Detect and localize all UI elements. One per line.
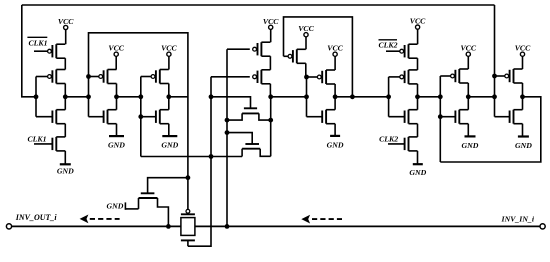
node stage5 output — [333, 94, 338, 99]
wire stage1 output — [64, 84, 66, 110]
vcc VCC keeper — [304, 33, 308, 37]
transistor M11 NMOS stage5 — [321, 111, 323, 123]
wire CLK2bar gate lead — [386, 50, 400, 52]
terminal INV_IN_i — [540, 224, 545, 229]
svg-text:GND: GND — [409, 168, 426, 177]
wire cmos2 input bar — [388, 77, 390, 117]
node INV_OUT junction — [166, 224, 171, 229]
wire M12-M13 connector — [417, 58, 419, 70]
node stage9 output — [520, 94, 525, 99]
wire VCC9 stub — [522, 56, 524, 69]
wire M8 source to gnd — [168, 124, 170, 136]
svg-text:VCC: VCC — [298, 24, 314, 33]
wire keeper drain — [305, 63, 307, 77]
vcc VCC mid — [269, 25, 273, 29]
node stage1 input — [34, 94, 39, 99]
node stage3 input — [138, 94, 143, 99]
wire stage2 input bar lower — [88, 97, 90, 117]
ground GND stage9 — [518, 135, 529, 137]
ground GND stage1 — [60, 163, 71, 165]
node stage2 input — [86, 94, 91, 99]
vcc VCC stage9 — [520, 52, 524, 56]
wire stage5 nmos gate lead — [307, 116, 323, 118]
wire stage9 nmos gate lead — [495, 116, 510, 118]
transistor M13 PMOS (input) — [404, 71, 406, 83]
wire U2 drain to node R — [269, 84, 271, 97]
svg-text:VCC: VCC — [161, 44, 177, 53]
transistor M15 NMOS (CLK2) — [404, 138, 406, 150]
wire left rail — [22, 5, 36, 97]
node stage9 input — [492, 94, 497, 99]
vcc VCC stage8 — [466, 52, 470, 56]
transistor M6 NMOS stage2 — [103, 111, 105, 123]
transistor M8 NMOS stage3 — [155, 111, 157, 123]
wire VCC1 stub — [65, 30, 67, 45]
wire stage8 pmos gate lead — [440, 75, 450, 77]
wire cmos2 nmos gate lead — [389, 116, 405, 118]
node n1 bus — [209, 94, 214, 99]
node stage8 input — [438, 94, 443, 99]
vcc VCC stage1 — [64, 25, 68, 29]
transmission gate TG1 — [186, 209, 190, 213]
node stage9 pmos gate — [492, 74, 497, 79]
wire CLK2 gate lead — [388, 143, 405, 145]
wire stage3 nmos gate lead — [141, 116, 156, 118]
transistor M17 NMOS stage8 — [454, 111, 456, 123]
svg-text:GND: GND — [57, 166, 74, 175]
terminal INV_OUT_i — [6, 224, 11, 229]
wire stage2 nmos gate lead — [89, 116, 104, 118]
svg-text:VCC: VCC — [263, 17, 279, 26]
wire M4 source to gnd — [64, 151, 66, 164]
transistor B NMOS horizontal — [245, 143, 259, 145]
svg-text:INV_OUT_i: INV_OUT_i — [15, 213, 58, 222]
wire VCC6 stub — [417, 29, 419, 44]
ground GND cmos2 — [413, 163, 423, 165]
svg-text:CLK2: CLK2 — [379, 134, 398, 143]
wire stage5 output — [334, 84, 336, 110]
wire bus stage5.out to cmos2.in — [335, 96, 389, 98]
svg-text:GND: GND — [107, 201, 124, 210]
node n1 lower — [209, 154, 214, 159]
transistor M16 PMOS stage8 — [454, 70, 456, 82]
svg-text:GND: GND — [462, 141, 479, 150]
wire stage1 nmos gate lead — [36, 116, 52, 118]
wire stage2 pmos gate lead — [89, 76, 99, 78]
wire stage8 input bar — [439, 76, 441, 162]
wire VCC8 stub — [467, 56, 469, 69]
wire stage1 input bar — [35, 77, 37, 117]
svg-text:VCC: VCC — [58, 17, 74, 26]
wire M6 source to gnd — [116, 124, 118, 136]
wire bus cmos2.out to stage8.in — [418, 96, 441, 98]
svg-text:VCC: VCC — [327, 44, 343, 53]
ground GND stage5 — [330, 135, 340, 137]
wire A gate feed — [211, 97, 251, 109]
node nQ bottom bus — [225, 224, 230, 229]
node stage1 output — [63, 94, 68, 99]
svg-text:GND: GND — [327, 140, 344, 149]
svg-text:CLK1: CLK1 — [28, 39, 47, 48]
wire latch1 feedback loop — [89, 33, 188, 210]
wire keeper pmos gate lead — [284, 55, 289, 57]
wire stage3 pmos gate lead — [141, 76, 151, 78]
wire stage9 input bar — [494, 5, 496, 117]
vcc VCC stage3 — [167, 52, 171, 56]
wire stage8 nmos gate lead — [440, 116, 455, 118]
wire keeper gate lead — [148, 178, 188, 194]
ground GND stage3 — [162, 135, 177, 137]
node nQ B-gate — [225, 130, 230, 135]
wire stage9 output — [522, 83, 524, 110]
wire bus R to stage5.in — [271, 96, 307, 98]
wire cmos2 pmos gate lead — [389, 76, 400, 78]
arrow dashed right — [301, 215, 310, 224]
wire M19 source to gnd — [522, 124, 524, 137]
wire bus stage2.out to stage3.in — [117, 96, 141, 98]
wire feedback top (node INV_FB) — [22, 4, 495, 6]
transistor M4 NMOS (CLK1) — [51, 138, 53, 150]
wire latch3 feedback loop — [440, 97, 541, 162]
node stage2 pmos gate — [86, 74, 91, 79]
svg-text:VCC: VCC — [410, 17, 426, 26]
transistor M20 NMOS keeper (gate horizontal) — [141, 192, 155, 194]
wire B gate feed — [227, 133, 252, 144]
transistor M3 NMOS (input) — [51, 111, 53, 123]
arrow dashed left — [80, 215, 89, 224]
wire stage2 output — [116, 84, 118, 110]
wire node-n1 rail — [188, 77, 211, 246]
node stage2 output — [114, 94, 119, 99]
transistor M14 NMOS (input) — [404, 111, 406, 123]
transistor A NMOS horizontal — [244, 107, 257, 109]
vcc VCC cmos2 — [416, 25, 420, 29]
wire bus stage8.out to stage9.in — [468, 96, 494, 98]
wire M15 source to gnd — [417, 151, 419, 164]
node cmos2 output — [415, 94, 420, 99]
wire VCC3 stub — [168, 56, 170, 69]
node stage5 input — [304, 94, 309, 99]
vcc VCC stage2 — [114, 52, 118, 56]
ground GND stage8 — [465, 135, 476, 137]
wire stage3.in to n1 link — [141, 156, 242, 158]
node stage5 pmos gate — [304, 75, 309, 80]
wire INV_IN bus — [195, 225, 541, 227]
svg-text:GND: GND — [108, 141, 125, 150]
node stage3 nmos gate — [138, 114, 143, 119]
wire INV_OUT bus — [11, 225, 181, 227]
wire pmos U2 gate lead — [211, 76, 250, 78]
node nQ A-terminal — [225, 118, 230, 123]
transistor M2 PMOS (input) — [51, 70, 53, 82]
wire VCC2 stub — [115, 56, 117, 69]
wire stage5 input bar — [306, 77, 308, 117]
wire M11 source to gnd — [334, 124, 336, 136]
wire stage9 pmos gate lead — [495, 75, 505, 77]
wire bus stage3.out to latch edge — [169, 96, 188, 98]
transistor M10 PMOS stage5 — [321, 71, 323, 83]
svg-text:VCC: VCC — [108, 44, 124, 53]
svg-text:GND: GND — [161, 141, 178, 150]
wire stage5 pmos gate lead — [307, 76, 318, 78]
wire cmos2 output — [417, 84, 419, 110]
wire pmos U1 gate lead — [227, 48, 250, 50]
transistor U2 PMOS (gate n1) — [257, 71, 259, 83]
node stage3 output — [166, 94, 171, 99]
svg-text:CLK1: CLK1 — [27, 134, 46, 143]
ground GND stage2 — [109, 135, 124, 137]
svg-text:VCC: VCC — [460, 44, 476, 53]
wire VCCk stub — [305, 37, 307, 50]
wire M3-M4 connector — [64, 124, 66, 137]
wire U1-U2 connector — [269, 56, 271, 70]
wire M1-M2 connector — [64, 58, 66, 69]
wire stage8 output — [467, 83, 469, 110]
wire stage3 output — [168, 84, 170, 110]
svg-text:GND: GND — [515, 141, 532, 150]
label CLK2bar — [379, 39, 398, 41]
wire stage3 input bar — [140, 77, 142, 157]
transistor M9 PMOS keeper — [292, 50, 294, 62]
wire R vertical — [270, 97, 272, 157]
node cmos2 input — [386, 94, 391, 99]
wire gnd tick keeper — [124, 202, 126, 209]
transistor M19 NMOS stage9 — [509, 111, 511, 123]
node keeper gate — [186, 175, 191, 180]
transistor M18 PMOS stage9 — [509, 70, 511, 82]
transistor M1 PMOS (CLK1bar) — [51, 45, 53, 57]
wire latch2 feedback loop — [284, 17, 353, 97]
node R A-terminal — [268, 118, 273, 123]
vcc VCC stage5 — [333, 52, 337, 56]
node latch2 bus — [350, 94, 355, 99]
wire CLK1 gate lead — [34, 143, 52, 145]
wire stage1 pmos gate lead — [36, 76, 48, 78]
transistor M12 PMOS (CLK2bar) — [404, 45, 406, 57]
svg-text:CLK2: CLK2 — [378, 40, 397, 49]
wire VCCm stub — [270, 29, 272, 42]
wire M14-M15 connector — [417, 124, 419, 137]
wire M17 source to gnd — [467, 124, 469, 137]
svg-text:VCC: VCC — [515, 44, 531, 53]
transistor M5 PMOS stage2 — [103, 70, 105, 82]
wire bus stage1.out to stage2.in — [65, 96, 88, 98]
transistor U1 PMOS (gate nQ) — [257, 43, 259, 55]
wire CLK1bar gate lead — [34, 50, 48, 52]
wire nQ rail — [226, 49, 228, 226]
svg-text:INV_IN_i: INV_IN_i — [501, 215, 535, 224]
node R bus — [268, 94, 273, 99]
label CLK1bar — [27, 36, 47, 38]
wire VCC5 stub — [334, 56, 336, 70]
transistor M7 PMOS stage3 — [155, 70, 157, 82]
node stage8 output — [466, 94, 471, 99]
node stage8 nmos gate — [438, 114, 443, 119]
